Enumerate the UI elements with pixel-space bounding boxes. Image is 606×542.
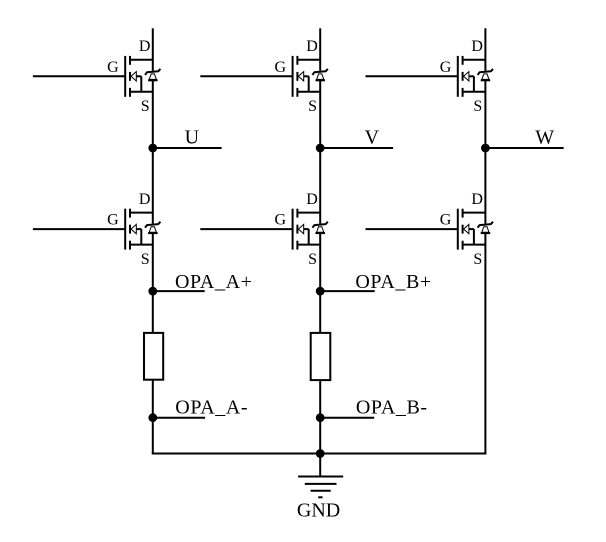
- transistor Q3 body diode (zener): [478, 69, 493, 80]
- resistor R2 (shunt phase B): [311, 333, 331, 380]
- transistor Q1 gate plate: [124, 56, 126, 97]
- wire Q3 source to Q6 drain: [484, 80, 486, 223]
- svg-text:OPA_B+: OPA_B+: [355, 271, 431, 293]
- transistor Q2 body diode (zener): [312, 69, 327, 80]
- transistor Q5 channel segments: [296, 209, 298, 250]
- svg-text:OPA_B-: OPA_B-: [356, 397, 428, 419]
- svg-text:S: S: [308, 98, 317, 115]
- net label U: [185, 126, 200, 148]
- transistor Q6 body diode (zener): [478, 222, 493, 233]
- transistor Q6 gate plate: [457, 209, 459, 250]
- transistor Q4 drain connector: [130, 212, 153, 214]
- wire stub node OPA_A-: [153, 417, 205, 419]
- svg-text:D: D: [471, 38, 483, 55]
- transistor Q3 body arrow: [464, 72, 474, 92]
- wire drain top column 2: [319, 28, 321, 71]
- transistor Q1 body arrow: [131, 72, 141, 92]
- transistor Q1 channel segments: [129, 56, 131, 97]
- transistor Q6 source connector: [463, 244, 486, 246]
- transistor Q2 pin label S: [308, 98, 317, 115]
- transistor Q4 channel segments: [129, 209, 131, 250]
- transistor Q1 pin label G: [107, 59, 119, 76]
- junction dot node OPA_B+: [316, 287, 325, 296]
- transistor Q5 source connector: [297, 244, 320, 246]
- svg-text:D: D: [139, 38, 151, 55]
- net label OPA_A+: [175, 271, 253, 293]
- svg-text:W: W: [535, 126, 554, 148]
- net label OPA_A-: [175, 397, 248, 419]
- svg-text:U: U: [185, 126, 200, 148]
- transistor Q3 channel segments: [462, 56, 464, 97]
- svg-text:V: V: [365, 126, 380, 148]
- transistor Q6 channel segments: [462, 209, 464, 250]
- transistor Q3 drain connector: [463, 59, 486, 61]
- transistor Q6 body arrow: [464, 224, 474, 244]
- transistor Q4 body arrow: [131, 224, 141, 244]
- resistor R1 (shunt phase A): [144, 333, 163, 380]
- transistor Q2 pin label D: [306, 38, 318, 55]
- net label OPA_B+: [355, 271, 431, 293]
- transistor Q4 gate lead wire: [33, 228, 125, 230]
- transistor Q2 pin label G: [275, 59, 287, 76]
- wire stub node U: [153, 147, 222, 149]
- junction dot node V: [316, 144, 325, 153]
- transistor Q3 source connector: [463, 91, 486, 93]
- junction dot node OPA_A-: [148, 413, 157, 422]
- svg-text:G: G: [275, 212, 287, 229]
- svg-text:G: G: [440, 212, 452, 229]
- transistor Q5 gate lead wire: [200, 228, 292, 230]
- junction dot ground rail: [316, 449, 325, 458]
- transistor Q6 drain connector: [463, 212, 486, 214]
- transistor Q5 pin label D: [306, 191, 318, 208]
- svg-text:G: G: [440, 59, 452, 76]
- transistor Q1 pin label S: [141, 98, 150, 115]
- junction dot node W: [481, 144, 490, 153]
- svg-text:S: S: [473, 251, 482, 268]
- svg-text:G: G: [107, 212, 119, 229]
- transistor Q6 gate lead wire: [366, 228, 458, 230]
- junction dot node OPA_B-: [316, 413, 325, 422]
- ground symbol: [298, 454, 343, 498]
- transistor Q1 pin label D: [139, 38, 151, 55]
- wire Q5 source to resistor R2: [319, 233, 321, 333]
- transistor Q3 gate lead wire: [366, 75, 458, 77]
- svg-text:OPA_A-: OPA_A-: [175, 397, 248, 419]
- transistor Q5 gate plate: [292, 209, 294, 250]
- junction dot node OPA_A+: [148, 287, 157, 296]
- transistor Q2 channel segments: [296, 56, 298, 97]
- transistor Q4 pin label G: [107, 212, 119, 229]
- transistor Q2 gate plate: [292, 56, 294, 97]
- net label OPA_B-: [356, 397, 428, 419]
- wire R1 to ground rail: [152, 380, 154, 455]
- svg-text:S: S: [473, 98, 482, 115]
- transistor Q5 (low-side phase V): [200, 191, 327, 268]
- transistor Q2 (high-side phase V): [200, 38, 327, 115]
- wire stub node OPA_B+: [320, 290, 375, 292]
- wire drain top column 1: [152, 28, 154, 71]
- svg-text:D: D: [471, 191, 483, 208]
- svg-text:D: D: [306, 191, 318, 208]
- wire stub node OPA_B-: [320, 417, 374, 419]
- wire Q2 source to Q5 drain: [319, 80, 321, 223]
- junction dot node U: [148, 144, 157, 153]
- svg-text:GND: GND: [297, 500, 340, 522]
- transistor Q5 pin label S: [308, 251, 317, 268]
- transistor Q4 pin label D: [139, 191, 151, 208]
- transistor Q3 pin label G: [440, 59, 452, 76]
- wire Q1 source to Q4 drain: [152, 80, 154, 223]
- transistor Q1 gate lead wire: [33, 75, 125, 77]
- transistor Q6 pin label G: [440, 212, 452, 229]
- wire stub node V: [320, 147, 393, 149]
- wire drain top column 3: [484, 28, 486, 71]
- transistor Q2 drain connector: [297, 59, 320, 61]
- svg-text:G: G: [275, 59, 287, 76]
- transistor Q5 body diode (zener): [312, 222, 327, 233]
- svg-text:D: D: [306, 38, 318, 55]
- transistor Q6 pin label D: [471, 191, 483, 208]
- transistor Q3 gate plate: [457, 56, 459, 97]
- wire stub node W: [485, 147, 563, 149]
- transistor Q1 drain connector: [130, 59, 153, 61]
- transistor Q5 body arrow: [298, 224, 308, 244]
- transistor Q4 (low-side phase U): [33, 191, 160, 268]
- ground rail wire: [152, 453, 487, 455]
- net label GND: [297, 500, 340, 522]
- transistor Q5 pin label G: [275, 212, 287, 229]
- transistor Q1 body diode (zener): [145, 69, 160, 80]
- svg-text:S: S: [141, 98, 150, 115]
- transistor Q4 gate plate: [124, 209, 126, 250]
- transistor Q5 drain connector: [297, 212, 320, 214]
- transistor Q3 pin label S: [473, 98, 482, 115]
- wire stub node OPA_A+: [153, 290, 205, 292]
- transistor Q3 (high-side phase W): [366, 38, 494, 115]
- svg-text:S: S: [141, 251, 150, 268]
- transistor Q4 pin label S: [141, 251, 150, 268]
- wire R2 to ground rail: [319, 380, 321, 455]
- transistor Q6 (low-side phase W): [366, 191, 494, 268]
- svg-text:S: S: [308, 251, 317, 268]
- transistor Q2 body arrow: [298, 72, 308, 92]
- transistor Q1 source connector: [130, 91, 153, 93]
- transistor Q4 source connector: [130, 244, 153, 246]
- svg-text:OPA_A+: OPA_A+: [175, 271, 253, 293]
- transistor Q3 pin label D: [471, 38, 483, 55]
- svg-text:D: D: [139, 191, 151, 208]
- transistor Q4 body diode (zener): [145, 222, 160, 233]
- transistor Q6 pin label S: [473, 251, 482, 268]
- net label W: [535, 126, 554, 148]
- net label V: [365, 126, 380, 148]
- wire Q4 source to resistor R1: [152, 233, 154, 333]
- transistor Q1 (high-side phase U): [33, 38, 160, 115]
- transistor Q2 source connector: [297, 91, 320, 93]
- transistor Q2 gate lead wire: [200, 75, 292, 77]
- wire Q6 source to ground rail: [484, 233, 486, 454]
- svg-text:G: G: [107, 59, 119, 76]
